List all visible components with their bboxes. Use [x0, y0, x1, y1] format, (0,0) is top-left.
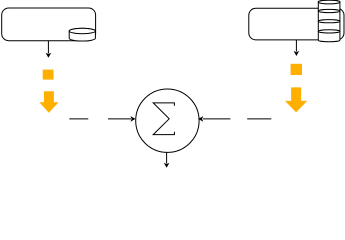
right orange fat down arrow: [285, 87, 307, 112]
left process box: [2, 8, 96, 41]
sigma symbol: [153, 103, 174, 135]
arrowhead into sum (left): [130, 116, 135, 122]
arrowhead on right box wire: [294, 51, 300, 56]
right process box: [249, 8, 344, 40]
database stack body: [318, 0, 340, 42]
dashed wire: left to sum, segment 1: [69, 118, 88, 120]
left orange square: [43, 70, 54, 80]
database stack joint 3: [318, 30, 340, 33]
database stack top ellipse: [318, 0, 340, 4]
arrowhead on sum output: [164, 163, 170, 168]
arrowhead into sum (right): [198, 116, 203, 122]
wire: right box to below: [295, 40, 297, 52]
left orange fat down arrow: [39, 91, 58, 113]
sum junction circle: [136, 89, 199, 152]
left disk top ellipse: [69, 28, 95, 33]
dashed wire: right to sum, segment 2: [247, 118, 271, 120]
dashed wire: right to sum, segment 1: [203, 118, 231, 120]
wire: left box to below: [47, 41, 49, 54]
arrowhead on left box wire: [46, 53, 52, 58]
database stack joint 1: [318, 9, 340, 12]
wire: sum output down: [166, 152, 168, 163]
left disk cylinder: [69, 28, 95, 41]
right orange square: [291, 64, 302, 75]
dashed wire: left to sum, segment 2: [108, 118, 131, 120]
database stack joint 2: [318, 20, 340, 23]
